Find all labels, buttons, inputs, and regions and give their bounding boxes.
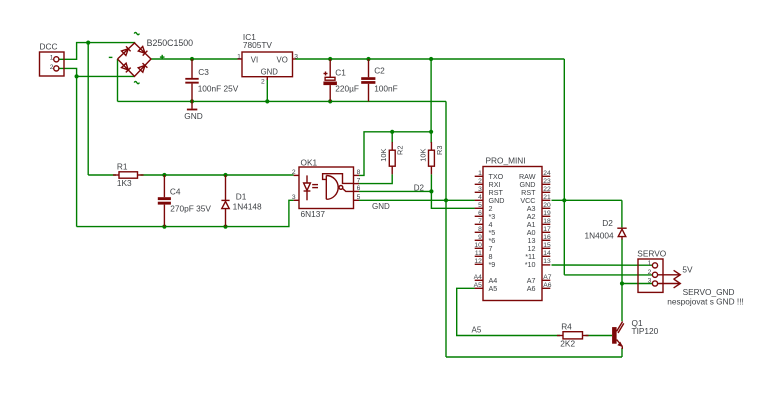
svg-text:DCC: DCC [40,42,58,52]
wire net A5 from PRO_MINI to R4 [457,288,612,335]
svg-text:2K2: 2K2 [560,338,575,348]
wire net 5V rail [296,57,653,275]
svg-text:6N137: 6N137 [301,209,326,219]
svg-text:16: 16 [543,234,551,241]
module PRO_MINI [474,156,552,301]
wire net GND rail [118,59,623,357]
resistor R2 10K [379,142,404,174]
svg-text:SERVO: SERVO [637,249,666,259]
svg-text:10: 10 [474,242,482,249]
svg-text:6: 6 [478,210,482,217]
svg-text:VI: VI [251,56,258,65]
svg-text:5V: 5V [682,264,693,274]
wire net bridge plus to IC1 VI [151,57,238,61]
svg-text:3: 3 [648,278,652,285]
svg-text:270pF 35V: 270pF 35V [170,203,211,213]
svg-text:A7: A7 [543,274,551,281]
svg-text:A5: A5 [472,325,482,334]
resistor R1 1K3 [113,162,144,189]
svg-text:7: 7 [357,177,361,184]
svg-text:A6: A6 [543,282,551,289]
svg-text:R1: R1 [117,162,128,172]
svg-text:TIP120: TIP120 [632,326,659,336]
ground symbol GND [184,101,202,121]
capacitor C3 100nF 25V [185,59,238,101]
svg-text:OK1: OK1 [301,157,318,167]
svg-text:R2: R2 [396,146,405,155]
svg-text:1K3: 1K3 [117,178,132,188]
svg-text:1N4004: 1N4004 [585,230,614,240]
svg-text:15: 15 [543,242,551,249]
svg-text:GND: GND [184,111,202,121]
svg-text:19: 19 [543,210,551,217]
wire net bottom AC2 rail to OK1 pin3 [77,200,294,228]
svg-text:21: 21 [543,194,551,201]
svg-text:7: 7 [478,218,482,225]
svg-text:4: 4 [478,194,482,201]
voltage regulator IC1 7805TV [237,32,298,85]
transistor Q1 TIP120 [612,318,659,349]
svg-text:1: 1 [648,260,652,267]
svg-text:*10: *10 [525,260,536,269]
svg-text:11: 11 [475,250,482,257]
svg-text:5: 5 [478,202,482,209]
svg-text:GND: GND [261,68,279,77]
svg-text:3: 3 [294,53,298,60]
wire net R1 row [88,173,293,177]
capacitor C4 270pF 35V [158,175,212,227]
connector DCC [40,42,65,76]
svg-text:1: 1 [478,170,482,177]
svg-text:R4: R4 [561,322,572,332]
svg-text:A4: A4 [474,274,482,281]
wire net OK1 pin7 to R2 [359,174,392,183]
optocoupler OK1 6N137 [292,157,361,218]
arrow SERVO_GND off-page [658,279,744,307]
svg-text:220µF: 220µF [335,84,359,94]
wire net DCC pin1 to bridge AC1 [59,41,135,176]
svg-text:1: 1 [50,55,54,62]
svg-text:2: 2 [648,269,652,276]
svg-text:VO: VO [277,56,288,65]
wire net SERVO_GND [620,239,652,321]
svg-text:3: 3 [292,194,296,201]
svg-text:C4: C4 [170,187,181,197]
svg-text:2: 2 [292,169,296,176]
svg-text:18: 18 [543,218,551,225]
svg-text:A5: A5 [489,284,498,293]
svg-text:17: 17 [543,226,551,233]
svg-text:2: 2 [261,79,265,86]
svg-text:10K: 10K [379,148,388,161]
svg-text:R3: R3 [435,146,444,155]
svg-text:14: 14 [543,250,551,257]
svg-text:D2: D2 [602,218,613,228]
svg-text:12: 12 [474,258,482,265]
svg-text:100nF: 100nF [374,84,398,94]
svg-text:100nF 25V: 100nF 25V [198,84,239,94]
svg-text:GND: GND [372,202,390,211]
svg-text:7805TV: 7805TV [243,40,273,50]
svg-text:2: 2 [478,178,482,185]
svg-text:1N4148: 1N4148 [233,202,262,212]
diode D2 1N4004 [585,218,627,240]
svg-text:24: 24 [543,170,551,177]
diode D1 1N4148 [221,175,262,227]
svg-text:A5: A5 [474,282,482,289]
wire net D2 from OK1 pin6 to PRO_MINI pin5 [359,174,475,208]
svg-text:*9: *9 [489,260,496,269]
svg-text:B250C1500: B250C1500 [147,38,194,48]
svg-text:C2: C2 [374,66,385,76]
wire net OK1 pin8 pullup top [359,130,433,176]
svg-text:C3: C3 [198,67,209,77]
svg-text:13: 13 [543,258,551,265]
svg-text:2: 2 [50,64,54,71]
wire net servo signal from PRO_MINI pin13 [552,264,653,266]
svg-text:nespojovat s GND !!!: nespojovat s GND !!! [667,297,744,307]
svg-text:3: 3 [478,186,482,193]
bridge rectifier B250C1500 [109,32,193,83]
resistor R4 2K2 [557,322,589,349]
svg-text:23: 23 [543,178,551,185]
capacitor C1 220uF polarized [323,59,359,101]
arrow 5V off-page [658,264,693,279]
wire net DCC pin2 to bridge AC2 [59,68,135,226]
svg-text:20: 20 [543,202,551,209]
svg-text:A6: A6 [527,284,536,293]
resistor R3 10K [418,142,443,174]
svg-text:10K: 10K [418,148,427,161]
svg-text:6: 6 [357,185,361,192]
connector SERVO [637,249,666,293]
svg-text:C1: C1 [335,68,346,78]
svg-text:5: 5 [357,194,361,201]
svg-text:PRO_MINI: PRO_MINI [486,156,526,166]
svg-text:9: 9 [478,234,482,241]
wire net GND from OK1 pin5 to PRO_MINI GND [359,198,475,202]
svg-text:D2: D2 [414,183,425,192]
svg-text:8: 8 [478,226,482,233]
svg-text:8: 8 [357,169,361,176]
capacitor C2 100nF [361,59,398,101]
svg-text:22: 22 [543,186,551,193]
svg-text:1: 1 [237,53,241,60]
svg-text:D1: D1 [236,192,247,202]
